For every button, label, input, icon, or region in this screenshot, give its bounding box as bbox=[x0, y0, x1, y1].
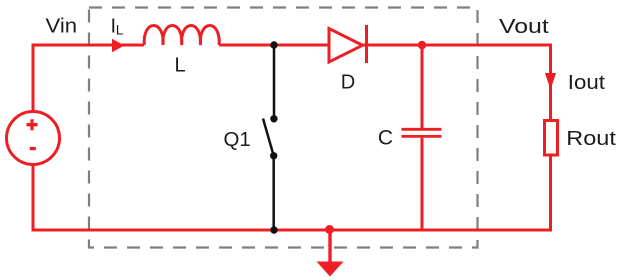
ground bbox=[317, 230, 344, 277]
voltage source bbox=[7, 112, 60, 165]
svg-text:Vin: Vin bbox=[46, 16, 78, 38]
svg-text:Rout: Rout bbox=[566, 128, 616, 150]
capacitor C bbox=[402, 45, 442, 230]
wire: source top to inductor (Vin rail) bbox=[33, 45, 144, 112]
svg-text:Iout: Iout bbox=[568, 72, 606, 94]
converter boundary (dashed box) bbox=[89, 8, 478, 248]
switch Q1 bbox=[263, 46, 278, 230]
svg-text:L: L bbox=[174, 55, 185, 77]
svg-text:L: L bbox=[116, 22, 124, 38]
node: ground junction bbox=[325, 225, 334, 234]
svg-text:Q1: Q1 bbox=[224, 129, 251, 151]
wire: inductor to top-right corner down to resistor bbox=[219, 45, 550, 120]
current arrow Iout bbox=[545, 73, 556, 90]
node: output junction bbox=[418, 41, 427, 50]
svg-text:D: D bbox=[341, 72, 355, 94]
diode D bbox=[329, 25, 367, 63]
svg-text:C: C bbox=[378, 127, 393, 150]
current arrow IL bbox=[112, 39, 125, 52]
resistor Rout bbox=[545, 121, 558, 156]
inductor L bbox=[144, 26, 219, 46]
node: switch top junction bbox=[270, 41, 277, 48]
wire: resistor bottom, bottom rail, back to source bbox=[33, 156, 551, 231]
node: switch bottom junction bbox=[270, 226, 277, 233]
svg-text:Vout: Vout bbox=[499, 16, 549, 38]
